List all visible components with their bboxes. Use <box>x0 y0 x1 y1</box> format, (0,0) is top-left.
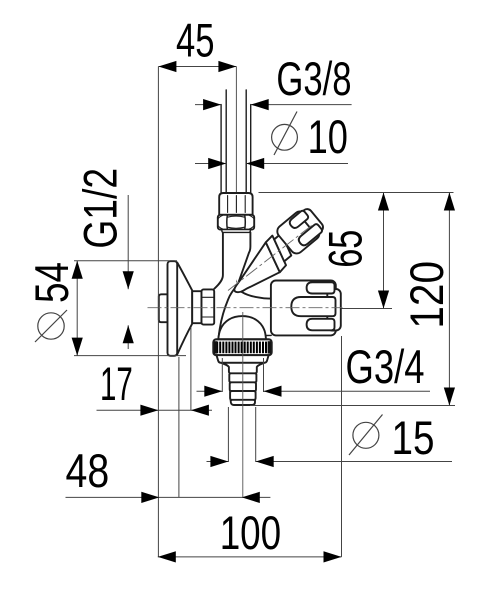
svg-text:10: 10 <box>308 111 348 164</box>
svg-text:G3/4: G3/4 <box>346 341 425 394</box>
svg-text:48: 48 <box>66 445 110 498</box>
svg-text:45: 45 <box>176 15 215 68</box>
svg-text:65: 65 <box>320 230 373 268</box>
svg-text:15: 15 <box>392 412 435 465</box>
svg-text:G3/8: G3/8 <box>276 53 351 106</box>
svg-text:100: 100 <box>220 507 282 560</box>
svg-text:54: 54 <box>26 262 79 303</box>
svg-text:G1/2: G1/2 <box>75 168 128 249</box>
svg-text:17: 17 <box>100 358 133 411</box>
svg-text:120: 120 <box>401 261 454 329</box>
